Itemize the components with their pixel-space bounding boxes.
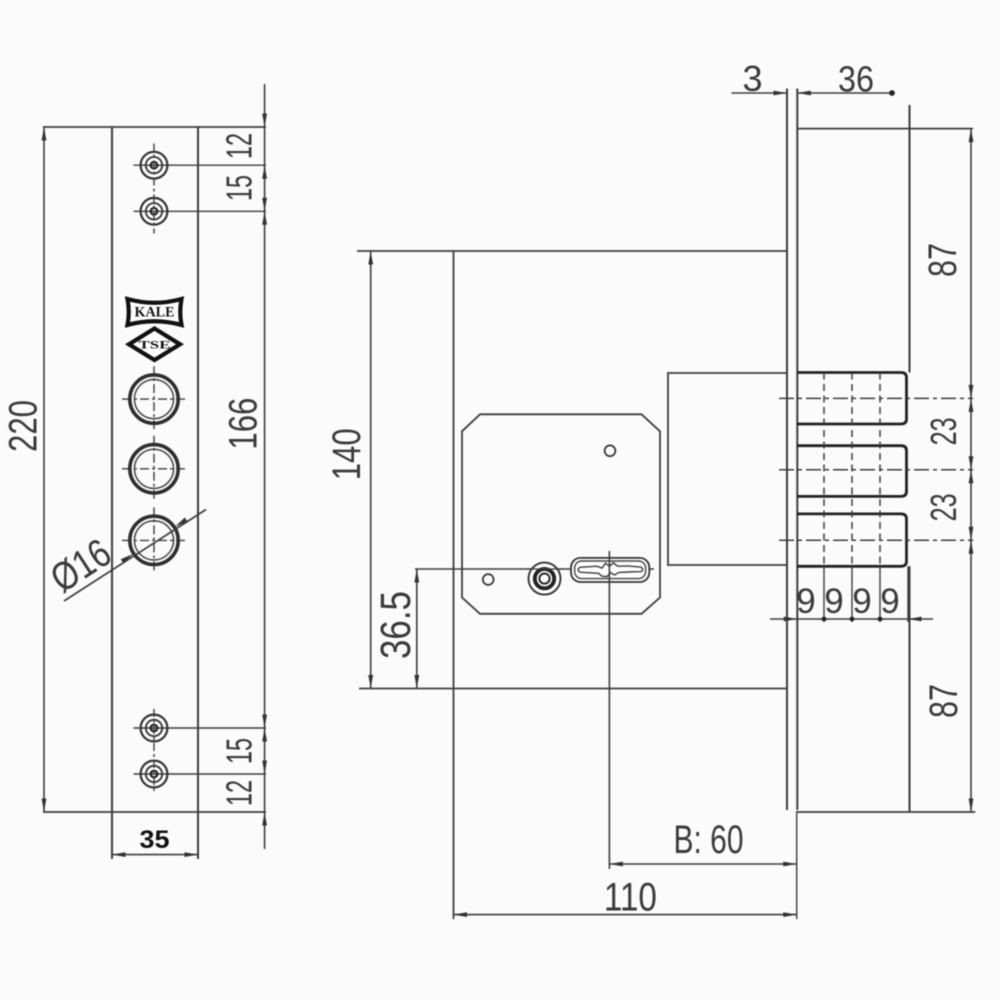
svg-text:36.5: 36.5: [372, 591, 420, 659]
case top edge (side) + extension: [797, 128, 973, 130]
case right edge upper: [909, 105, 911, 373]
dimension line 36: [797, 92, 892, 94]
bolt 1: [797, 373, 906, 425]
horizontal center line over boss: [527, 568, 562, 570]
svg-text:Ø16: Ø16: [43, 531, 119, 602]
dimension line 220: [43, 127, 45, 812]
svg-text:220: 220: [2, 400, 46, 452]
faceplate side view left line: [786, 89, 788, 811]
svg-text:87: 87: [921, 243, 965, 277]
plate left edge: [111, 127, 113, 859]
dimension line 9999: [770, 618, 933, 620]
svg-text:166: 166: [222, 398, 266, 450]
faceplate side view right line: [796, 89, 798, 811]
svg-text:140: 140: [325, 428, 369, 480]
plate bottom edge + extension line: [43, 811, 266, 813]
svg-text:KALE: KALE: [135, 305, 175, 321]
svg-text:12: 12: [219, 133, 260, 159]
svg-text:35: 35: [140, 826, 170, 854]
big hole at y=468.8: [122, 468, 187, 470]
svg-text:B: 60: B: 60: [674, 818, 744, 862]
bolt pin hidden line x=880: [879, 373, 881, 567]
TSE diamond logo: [129, 329, 180, 361]
svg-text:12: 12: [219, 780, 260, 806]
bolt pin hidden line x=852: [851, 373, 853, 567]
screw hole top 1: [134, 164, 267, 166]
bolt housing inner rectangle: [668, 373, 787, 565]
KALE logo badge: [128, 299, 182, 325]
svg-text:36: 36: [838, 59, 874, 100]
lock case left edge + extension down: [453, 251, 455, 919]
big hole at y=399.1: [122, 398, 187, 400]
bolt center line y=540.2: [779, 539, 973, 541]
case bottom edge (side) + extension: [796, 811, 975, 813]
bolt center line y=398.4: [779, 397, 973, 399]
cylinder vertical center line / B:60 extension: [608, 551, 610, 869]
bolt pin hidden line x=824: [823, 373, 825, 567]
svg-text:23: 23: [923, 493, 964, 521]
svg-text:87: 87: [922, 684, 966, 718]
screw hole top 2: [134, 210, 267, 212]
case right edge lower: [909, 566, 911, 812]
svg-text:23: 23: [923, 417, 964, 445]
cylinder profile (pill): [571, 558, 649, 582]
extension line below case: [796, 812, 798, 919]
lock case bottom edge: [359, 688, 787, 690]
lock case top edge: [357, 250, 787, 252]
dimension line 110: [454, 914, 797, 916]
bolt 2: [797, 446, 906, 497]
svg-text:9: 9: [852, 582, 871, 621]
svg-text:110: 110: [604, 875, 657, 919]
octagonal cylinder plate: [462, 414, 660, 614]
small hole upper right: [605, 445, 616, 456]
extension line right of bolts: [907, 566, 909, 622]
svg-text:15: 15: [219, 738, 260, 764]
dimension line 3: [732, 92, 788, 94]
dimension chain line right of plate: [264, 84, 266, 849]
big hole at y=540.4: [122, 539, 187, 541]
dimension line 36.5: [416, 569, 418, 689]
diameter leader line O16: [64, 510, 206, 602]
screw hole bottom 1: [134, 727, 267, 729]
key slot wavy profile: [578, 563, 643, 577]
plate right inner edge: [197, 127, 199, 859]
svg-text:9: 9: [824, 582, 843, 621]
screw holes vertical center line: [153, 144, 155, 234]
svg-text:15: 15: [219, 175, 260, 201]
plate top edge + extension line: [43, 126, 266, 128]
svg-text:9: 9: [796, 582, 815, 621]
bottom screw holes vertical center line: [153, 709, 155, 793]
svg-text:9: 9: [880, 582, 899, 621]
screw hole bottom 2: [134, 773, 267, 775]
dimension line 140: [370, 251, 372, 689]
dimension line B:60: [609, 863, 796, 865]
bolt center line y=469.8: [779, 469, 973, 471]
cylinder horizontal center line: [415, 568, 654, 570]
bolt 3: [797, 514, 906, 566]
right dimension chain line: [970, 129, 972, 812]
spindle boss: [529, 563, 561, 595]
small hole lower left: [483, 574, 494, 585]
dimension line 35: [112, 854, 198, 856]
svg-text:TSE: TSE: [139, 340, 171, 352]
svg-text:3: 3: [742, 58, 762, 99]
